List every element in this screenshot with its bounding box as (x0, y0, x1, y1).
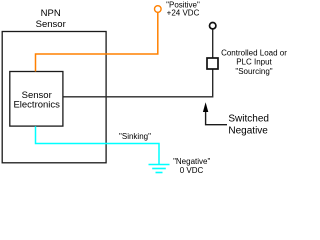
svg-text:"Negative": "Negative" (173, 157, 210, 166)
svg-text:Electronics: Electronics (13, 100, 60, 111)
svg-text:Sensor: Sensor (36, 19, 66, 30)
svg-text:"Sourcing": "Sourcing" (235, 67, 272, 76)
svg-text:PLC Input: PLC Input (236, 58, 272, 67)
svg-text:"Sinking": "Sinking" (119, 132, 151, 141)
svg-text:Negative: Negative (228, 125, 268, 136)
svg-text:Controlled Load or: Controlled Load or (221, 49, 287, 58)
svg-text:NPN: NPN (41, 8, 61, 19)
svg-text:+24 VDC: +24 VDC (167, 8, 200, 17)
svg-text:Switched: Switched (228, 113, 269, 124)
svg-text:0 VDC: 0 VDC (180, 166, 204, 175)
